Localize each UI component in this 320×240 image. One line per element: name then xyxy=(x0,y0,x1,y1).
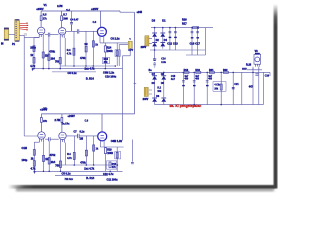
diode D1 xyxy=(152,33,157,37)
svg-text:C16: C16 xyxy=(190,42,195,46)
svg-text:2xx 4.7k: 2xx 4.7k xyxy=(84,167,94,171)
power tube V2 xyxy=(98,132,107,141)
resistor R11 boxed xyxy=(115,50,120,57)
ground stub ch2 xyxy=(34,171,36,174)
svg-text:D1: D1 xyxy=(162,18,166,22)
svg-text:R.23: R.23 xyxy=(246,63,252,66)
capacitor C19 branch xyxy=(182,72,185,104)
transformer T3 xyxy=(144,87,148,96)
svg-text:B+: B+ xyxy=(149,69,153,72)
wire grid leak column x43 xyxy=(42,38,44,69)
resistor boxed ch2 xyxy=(115,152,121,159)
svg-text:D3: D3 xyxy=(152,18,156,22)
wire R7b to triode ch2 xyxy=(61,122,63,132)
wire column x74 with resistor xyxy=(72,25,75,66)
wire grid column x43.5 ch2 xyxy=(43,142,45,171)
svg-text:C12: C12 xyxy=(167,42,172,46)
shadow right xyxy=(274,4,278,189)
resistor R10 ch2 xyxy=(85,150,87,156)
ground rail A ch1 xyxy=(60,65,115,67)
wire column x48.9 xyxy=(48,37,50,69)
svg-text:da. Ki pengelepalan: da. Ki pengelepalan xyxy=(170,104,202,108)
svg-text:4.7k: 4.7k xyxy=(67,157,72,160)
svg-text:4.7k: 4.7k xyxy=(31,167,37,171)
svg-text:4n7: 4n7 xyxy=(171,78,176,81)
resistor R15 boxed ch2 xyxy=(106,161,116,169)
wire input bus down to channel 2 xyxy=(24,35,39,136)
svg-text:470k: 470k xyxy=(80,161,86,164)
wire column x65.5 ch2 xyxy=(65,143,67,165)
regulator tube V3 xyxy=(254,50,261,64)
svg-text:470k: 470k xyxy=(49,50,55,54)
wire column x86 xyxy=(85,31,87,66)
wire column x93.6 ch2 xyxy=(93,136,95,165)
label 100n blob xyxy=(242,68,247,70)
wire B+ rail ch2 xyxy=(41,113,134,115)
junction dots ch1 xyxy=(33,65,116,69)
svg-text:750: 750 xyxy=(55,163,60,167)
resistor R5 xyxy=(40,16,42,21)
triode V1b pins xyxy=(60,35,64,38)
ground stub ch1 xyxy=(32,68,34,71)
capacitor C22 branch xyxy=(232,72,235,104)
diode D3 xyxy=(152,43,157,47)
wire cathode column x34 xyxy=(34,38,39,69)
wire column x117.2 xyxy=(116,43,118,66)
svg-text:C10 100u: C10 100u xyxy=(105,75,117,79)
diode D5 xyxy=(152,76,157,80)
wire power tube cathode ch2 xyxy=(100,141,123,172)
wire column x86.3 ch2 xyxy=(85,136,87,165)
resistor R4 xyxy=(73,48,75,55)
wire branch x259 xyxy=(258,68,260,105)
junction dots ch2 xyxy=(34,164,119,172)
resistor R12 ch2 xyxy=(93,145,95,151)
capacitor C17 xyxy=(196,28,199,55)
capacitor C16 xyxy=(191,28,194,55)
capacitor C23 xyxy=(255,74,258,75)
power tube internals ch2 xyxy=(100,135,104,138)
wire drop to R7 ch2 xyxy=(61,114,63,118)
coupling cap C2 xyxy=(48,33,50,37)
resistor R8 xyxy=(59,58,61,64)
wire R1 to triode ch2 xyxy=(40,122,42,132)
wire V2a anode to C2 ch2 xyxy=(45,138,59,140)
wire column x65.2 xyxy=(64,38,66,66)
background card xyxy=(0,0,278,194)
wire column x93.3 xyxy=(92,31,94,66)
svg-text:2xx 4.7k: 2xx 4.7k xyxy=(85,66,95,70)
wire label row ch1 xyxy=(52,71,96,73)
svg-text:C10 4.7u: C10 4.7u xyxy=(103,172,114,176)
triode V2a xyxy=(38,132,45,139)
wire R7 to triode V1b xyxy=(61,21,63,28)
ground rail C ch2 xyxy=(55,175,108,177)
wire triode V1a anode to C2 xyxy=(45,34,59,36)
svg-text:0.1u: 0.1u xyxy=(80,131,85,134)
svg-text:R17: R17 xyxy=(182,21,187,25)
wire column x117.2 ch2 xyxy=(116,147,118,171)
triode V1a pins xyxy=(39,34,43,37)
jack J1 xyxy=(4,28,8,40)
resistor R7 xyxy=(104,46,106,52)
junction dots psu xyxy=(154,27,254,106)
wire triode V1b anode to C7 to power tube grid xyxy=(66,30,98,32)
svg-text:+240V: +240V xyxy=(68,115,76,118)
svg-text:+240V: +240V xyxy=(91,8,99,11)
wire OPT secondary left xyxy=(123,48,131,140)
OPT transformer T1 xyxy=(128,41,132,48)
svg-text:240V: 240V xyxy=(143,98,149,101)
transformer T2 xyxy=(145,36,149,46)
wire branch x263.5 xyxy=(262,72,264,104)
svg-text:R15: R15 xyxy=(104,59,109,61)
svg-text:2M6: 2M6 xyxy=(63,19,68,21)
svg-text:+240V: +240V xyxy=(36,8,44,11)
svg-text:C19: C19 xyxy=(265,75,270,77)
ground rail B ch2 xyxy=(34,170,122,172)
svg-text:470k: 470k xyxy=(80,57,86,60)
svg-text:4 C6x: 4 C6x xyxy=(214,84,221,87)
wire C4 drop xyxy=(71,11,73,31)
svg-text:+240V: +240V xyxy=(40,109,48,112)
red pin pads xyxy=(26,23,28,31)
capacitor C18 reservoir xyxy=(153,59,156,60)
resistor R7b ch2 xyxy=(61,118,63,123)
connector P1 caps xyxy=(15,19,19,20)
capacitor C21 branch xyxy=(206,72,209,104)
wire lower bridge xyxy=(149,72,164,104)
capacitor C20 branch xyxy=(193,72,196,104)
coupling cap C7 xyxy=(77,29,79,33)
wire drop to OPT xyxy=(134,12,136,114)
svg-text:C9M 1.2n: C9M 1.2n xyxy=(103,71,115,75)
triode V1a xyxy=(38,27,45,34)
ground rail A ch2 xyxy=(61,164,118,166)
jack J1 caps xyxy=(4,28,9,30)
svg-text:C15: C15 xyxy=(171,76,176,78)
svg-text:C5 0.1u: C5 0.1u xyxy=(68,71,78,75)
resistor R5 ch2 xyxy=(43,155,45,161)
svg-text:100R: 100R xyxy=(107,50,113,53)
svg-text:2.7M: 2.7M xyxy=(55,118,61,122)
svg-text:R20: R20 xyxy=(182,18,187,22)
red pin wires xyxy=(20,23,27,29)
svg-text:C8M 1.2u: C8M 1.2u xyxy=(111,139,123,143)
svg-text:C17: C17 xyxy=(195,42,200,46)
diode D7 xyxy=(152,98,157,102)
svg-text:C21: C21 xyxy=(234,84,239,86)
svg-text:750: 750 xyxy=(55,60,60,64)
capacitor C13 xyxy=(174,28,177,50)
label boxed 10k xyxy=(213,82,226,92)
wire column x60.5 ch2 xyxy=(60,143,62,172)
wire column x60.2 xyxy=(59,38,61,69)
label boxed R15 ch1 xyxy=(103,57,110,64)
wire R5 to triode V1a xyxy=(40,21,42,28)
resistor R8 ch2 xyxy=(60,161,62,167)
svg-text:C8 2.2u: C8 2.2u xyxy=(111,37,121,41)
wire output branch ch2 xyxy=(131,140,133,162)
svg-text:IN: IN xyxy=(1,43,4,46)
resistor R4 xyxy=(33,58,35,64)
capacitor C12 xyxy=(169,28,172,50)
resistor R22 xyxy=(223,71,228,73)
svg-text:470k: 470k xyxy=(50,153,56,157)
power tube internals xyxy=(100,31,104,34)
triode V1b xyxy=(59,28,66,35)
resistor R10 xyxy=(85,46,87,52)
wire drop to R7 plate xyxy=(61,11,63,16)
svg-text:1M: 1M xyxy=(80,137,84,141)
wire psu mid rail xyxy=(186,28,206,55)
wire branch x253 xyxy=(252,68,254,105)
wire column x74.3 ch2 xyxy=(73,136,75,165)
wire tick opt ch1 xyxy=(134,83,137,85)
svg-text:2.2u: 2.2u xyxy=(161,62,166,64)
svg-text:47k: 47k xyxy=(112,166,117,169)
svg-text:+245: +245 xyxy=(137,11,143,14)
svg-text:100R: 100R xyxy=(107,152,113,155)
resistor R3 ch2 xyxy=(33,150,35,156)
wire drop to R5 xyxy=(40,11,42,16)
resistor R17 on rail xyxy=(193,27,199,29)
wire connector to channel 1 xyxy=(19,34,24,36)
resistor R4 ch2 xyxy=(73,152,75,159)
wire bridge bottom rail xyxy=(150,50,206,59)
svg-text:71k 4xx: 71k 4xx xyxy=(65,178,74,181)
resistor R19 xyxy=(196,71,201,73)
wire drop to R1 ch2 xyxy=(40,114,42,118)
ground rail B ch1 xyxy=(32,68,122,70)
ground symbol psu xyxy=(153,62,156,67)
resistor R21 xyxy=(209,71,214,73)
svg-text:OPT: OPT xyxy=(128,50,133,52)
wire OPT left lower xyxy=(119,45,128,66)
svg-text:C14: C14 xyxy=(161,58,166,61)
choke branch xyxy=(220,72,222,104)
capacitor C4 xyxy=(70,22,73,24)
connector P1 pins xyxy=(15,22,17,37)
svg-text:C1M: C1M xyxy=(22,146,27,150)
wire B rail lower xyxy=(149,72,270,76)
svg-text:4.7k: 4.7k xyxy=(30,64,36,68)
wire OPT return ch2 xyxy=(120,139,123,141)
svg-text:V1: V1 xyxy=(44,3,48,7)
wire regulator connections xyxy=(242,67,262,70)
diode D8 xyxy=(161,98,166,102)
capacitor output ch2 xyxy=(131,162,134,163)
wire drop to power tube xyxy=(100,11,102,27)
resistor R12 xyxy=(92,41,94,47)
wire V2b anode to C7 to power tube ch2 xyxy=(66,135,98,137)
svg-text:B. R14: B. R14 xyxy=(86,176,95,180)
triode V2b pins xyxy=(61,139,65,142)
diode D4 xyxy=(160,43,165,47)
resistor R18 xyxy=(184,71,189,73)
wire jack to connector xyxy=(9,34,15,36)
svg-text:2.7M: 2.7M xyxy=(57,6,62,8)
triode V2a pins xyxy=(40,139,44,142)
wire cathode column x34 ch2 xyxy=(34,142,39,171)
triode V2b xyxy=(59,132,66,139)
wire HT top rail xyxy=(151,27,213,29)
svg-text:B. R14: B. R14 xyxy=(86,76,95,80)
svg-text:C5 0.1u: C5 0.1u xyxy=(62,172,72,176)
svg-text:4.7k: 4.7k xyxy=(67,53,72,56)
svg-text:C13: C13 xyxy=(173,42,178,46)
shadow bottom fade xyxy=(16,188,274,191)
resistor R1 ch2 xyxy=(41,118,43,123)
wire bridge verticals xyxy=(149,28,163,50)
shadow bottom xyxy=(8,185,275,189)
coupling cap C7 ch2 xyxy=(78,134,80,138)
wire B+ rail ch1 xyxy=(41,11,134,12)
wire branch x242 xyxy=(241,72,243,104)
resistor R6 ch2 xyxy=(48,158,50,164)
resistor R5 xyxy=(42,52,44,58)
resistor R4 ch2 xyxy=(33,161,35,167)
gray notch xyxy=(24,33,27,36)
wire column x49.2 ch2 xyxy=(48,141,50,171)
diode D6 xyxy=(161,76,166,80)
resistor R16 ch2 xyxy=(105,148,107,154)
wire psu ground rail xyxy=(155,104,264,106)
svg-text:1M: 1M xyxy=(84,44,87,46)
wire power tube cathode xyxy=(100,36,128,69)
svg-text:Da.C4x: Da.C4x xyxy=(62,123,71,126)
resistor R6 xyxy=(48,54,50,60)
wire drop to power tube ch2 xyxy=(101,114,103,132)
svg-text:C11 100u: C11 100u xyxy=(107,177,118,181)
svg-text:100p: 100p xyxy=(22,158,28,162)
diode D2 xyxy=(160,33,165,37)
power tube V1 xyxy=(97,27,106,36)
coupling cap C2 ch2 xyxy=(49,137,51,141)
svg-text:27k: 27k xyxy=(43,19,48,21)
svg-text:230V: 230V xyxy=(141,46,147,49)
resistor R7 plate xyxy=(61,16,63,21)
connector P1 xyxy=(15,20,20,42)
regulator tube pins xyxy=(255,64,259,67)
resistor R3 xyxy=(33,46,35,52)
